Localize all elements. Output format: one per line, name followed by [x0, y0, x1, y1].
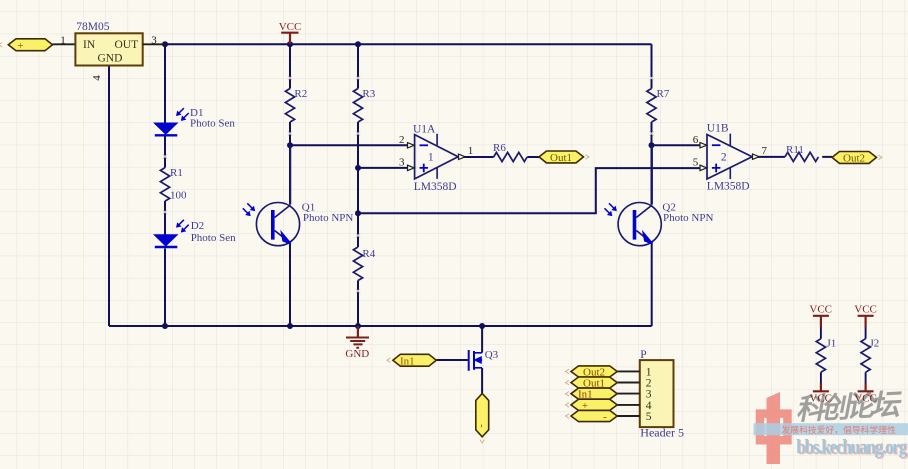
power VCC main — [279, 21, 302, 44]
svg-text:R6: R6 — [493, 142, 506, 154]
wire header pin 1 — [617, 370, 640, 372]
svg-text:3: 3 — [646, 389, 652, 401]
pin number 1 — [468, 145, 474, 157]
svg-text:LM358D: LM358D — [707, 180, 750, 192]
op-amp U1A — [408, 134, 466, 179]
node R7 pin6 — [649, 142, 655, 148]
svg-text:1: 1 — [428, 151, 434, 163]
wire port to regulator pin 1 — [53, 43, 76, 45]
label U1B LM358D — [707, 180, 750, 192]
wire In1 to Q3 gate — [436, 359, 468, 361]
header connector P — [640, 360, 674, 427]
power VCC J2 top — [854, 303, 877, 327]
label Q3 — [485, 349, 499, 361]
svg-text:1: 1 — [60, 35, 66, 47]
label P — [640, 349, 646, 361]
port flag In1 — [566, 388, 618, 401]
op-amp U1B — [700, 134, 759, 179]
resistor J2 — [861, 327, 870, 383]
svg-text:2: 2 — [646, 377, 652, 389]
node top rail / VCC R2 — [287, 41, 293, 47]
wire header pin 4 — [617, 404, 640, 406]
port + input — [0, 39, 53, 52]
resistor R4 — [353, 247, 362, 281]
svg-text:3: 3 — [399, 156, 405, 168]
wire U1A pin3 net — [358, 167, 408, 169]
wire Q1 emitter — [289, 244, 291, 326]
wire top rail — [165, 43, 652, 45]
transistor Q2 Photo NPN — [618, 145, 661, 246]
pin number 5 — [693, 157, 699, 169]
svg-text:R2: R2 — [294, 88, 307, 100]
watermark logo 中 — [756, 392, 792, 464]
pin number 4 — [91, 75, 103, 81]
wire R3 R4 column — [357, 44, 359, 326]
label U1A LM358D — [414, 181, 457, 193]
svg-text:7: 7 — [762, 145, 768, 157]
svg-text:Q3: Q3 — [485, 349, 499, 361]
wire header pin 2 — [617, 382, 640, 384]
wire bottom rail — [109, 325, 652, 327]
label Q1 Photo NPN — [303, 212, 353, 224]
svg-text:Photo NPN: Photo NPN — [303, 212, 353, 224]
port In1 — [387, 354, 436, 367]
svg-text:2: 2 — [399, 134, 405, 146]
wire U1A pin2 net — [290, 144, 408, 146]
port flag Out1 — [566, 377, 618, 390]
photo arrows D1 — [177, 108, 189, 120]
wire header pin 3 — [617, 393, 640, 395]
svg-text:VCC: VCC — [279, 21, 302, 33]
node bottom rail / Q1 emitter — [287, 323, 293, 329]
svg-text:U1A: U1A — [413, 123, 436, 135]
ground GND — [345, 326, 369, 360]
transistor Q1 Photo NPN — [256, 145, 299, 245]
svg-text:R4: R4 — [362, 248, 375, 260]
photo arrows D2 — [177, 220, 189, 232]
label 78M05 — [76, 21, 109, 33]
diode D2 — [154, 235, 177, 247]
resistor R6 — [494, 152, 527, 161]
svg-text:GND: GND — [345, 348, 369, 360]
svg-text:发展科技爱好，倡导科学理性: 发展科技爱好，倡导科学理性 — [782, 424, 897, 435]
power VCC J2 bottom — [854, 383, 877, 405]
pin number 7 — [762, 145, 768, 157]
label R3 — [362, 88, 375, 100]
svg-text:LM358D: LM358D — [414, 181, 457, 193]
svg-text:4: 4 — [646, 400, 652, 412]
svg-text:Header 5: Header 5 — [640, 426, 684, 440]
svg-text:bbs.kechuang.org: bbs.kechuang.org — [796, 436, 907, 459]
port Out1 — [539, 151, 589, 164]
label J1 — [827, 338, 837, 350]
label R7 — [657, 88, 670, 100]
watermark band — [754, 423, 908, 435]
label R6 — [493, 142, 506, 154]
wire regulator pin 3 — [143, 43, 165, 45]
label D2 — [191, 220, 204, 232]
node R4 pin5 — [355, 210, 361, 216]
power VCC J1 top — [809, 303, 832, 327]
pin number 3 — [399, 156, 405, 168]
label Header 5 — [640, 426, 684, 440]
wire header pin 5 — [617, 415, 640, 417]
wire regulator GND drop — [108, 66, 110, 326]
diode D1 — [154, 123, 177, 135]
wire Q3 source to port — [481, 368, 483, 393]
node bottom rail / GND — [355, 323, 361, 329]
svg-text:R11: R11 — [786, 144, 804, 156]
svg-text:In1: In1 — [400, 355, 415, 367]
svg-text:78M05: 78M05 — [76, 21, 109, 33]
label R11 — [786, 144, 804, 156]
label R2 — [294, 88, 307, 100]
svg-text:VCC: VCC — [854, 393, 877, 405]
svg-text:Photo NPN: Photo NPN — [663, 212, 713, 224]
svg-text:Out2: Out2 — [843, 153, 865, 165]
svg-text:2: 2 — [721, 151, 727, 163]
photo arrows Q1 — [243, 203, 255, 215]
svg-text:GND: GND — [98, 53, 123, 65]
label D1 Photo Sen — [190, 118, 235, 130]
node top rail / R3 — [355, 41, 361, 47]
svg-text:6: 6 — [693, 134, 699, 146]
svg-text:4: 4 — [91, 75, 103, 81]
wire U1B output to Out2 — [758, 156, 832, 158]
port Out2 — [832, 152, 882, 165]
label J2 — [870, 338, 880, 350]
svg-text:J2: J2 — [870, 338, 880, 350]
wire R7 column — [651, 44, 653, 204]
label D1 — [190, 107, 203, 119]
svg-text:OUT: OUT — [115, 39, 139, 51]
label U1B — [707, 122, 729, 134]
wire diode chain — [164, 44, 166, 326]
svg-text:D2: D2 — [191, 220, 204, 232]
svg-text:Out1: Out1 — [550, 152, 572, 164]
voltage regulator U 78M05 — [75, 33, 142, 65]
wire R2 column — [289, 44, 291, 145]
resistor R7 — [647, 89, 656, 123]
svg-text:5: 5 — [646, 411, 652, 423]
node R3 pin3 — [355, 165, 361, 171]
value 100 — [170, 189, 187, 201]
svg-text:Photo Sen: Photo Sen — [191, 232, 236, 244]
svg-text:R3: R3 — [362, 88, 375, 100]
port minus vertical — [476, 393, 489, 443]
pin number 2 — [399, 134, 405, 146]
svg-text:VCC: VCC — [809, 303, 832, 315]
pin number 1 — [60, 35, 66, 47]
svg-text:R1: R1 — [170, 167, 183, 179]
svg-text:Photo Sen: Photo Sen — [190, 118, 235, 130]
port flag minus — [566, 410, 618, 423]
resistor J1 — [816, 327, 825, 383]
svg-text:U1B: U1B — [707, 122, 729, 134]
wire Q3 drain — [481, 326, 483, 353]
label Q2 Photo NPN — [663, 212, 713, 224]
pin end markers — [163, 76, 654, 293]
photo arrows Q2 — [605, 203, 617, 215]
svg-text:-: - — [476, 424, 487, 427]
label Q1 — [302, 202, 315, 214]
svg-text:IN: IN — [83, 39, 96, 51]
port flag Out2 — [566, 366, 618, 379]
wire Q2 emitter — [651, 244, 653, 326]
wire U1A output to Out1 — [464, 156, 539, 158]
svg-text:R7: R7 — [657, 88, 670, 100]
svg-text:5: 5 — [693, 157, 699, 169]
node R2 pin2 Q1 — [287, 142, 293, 148]
label D2 Photo Sen — [191, 232, 236, 244]
label R4 — [362, 248, 375, 260]
watermark url bbs.kechuang.org — [796, 436, 908, 460]
svg-text:-: - — [603, 411, 607, 423]
svg-text:J1: J1 — [827, 338, 837, 350]
svg-text:P: P — [640, 349, 646, 361]
resistor R2 — [285, 89, 294, 123]
node top rail / D1 — [162, 41, 168, 47]
svg-text:VCC: VCC — [854, 303, 877, 315]
power VCC J1 bottom — [809, 383, 832, 405]
transistor Q3 MOSFET — [469, 350, 482, 371]
port flag plus — [566, 399, 618, 412]
wire Q1 collector — [289, 145, 291, 204]
node bottom rail / D2 — [162, 323, 168, 329]
node bottom rail / Q3 drain — [479, 323, 485, 329]
svg-text:1: 1 — [468, 145, 474, 157]
label R1 — [170, 167, 183, 179]
svg-text:3: 3 — [151, 35, 157, 47]
pin number 6 — [693, 134, 699, 146]
wire U1B pin5 net — [358, 168, 702, 213]
resistor R1 — [160, 168, 169, 202]
label U1A — [413, 123, 436, 135]
pin number 3 — [151, 35, 157, 47]
wire U1B pin6 net — [652, 144, 702, 146]
svg-text:VCC: VCC — [809, 393, 832, 405]
svg-text:+: + — [17, 40, 23, 52]
label Q2 — [662, 202, 675, 214]
resistor R3 — [353, 89, 362, 123]
resistor R11 — [785, 152, 819, 161]
svg-text:100: 100 — [170, 189, 187, 201]
